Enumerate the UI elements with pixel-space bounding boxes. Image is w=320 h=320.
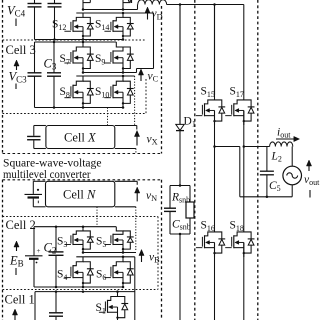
cell 4 S11 source stub (cut) xyxy=(83,0,90,10)
cell 2 battery E_B xyxy=(25,227,43,287)
dotted continuation cell3 to cell X xyxy=(134,76,136,126)
partial cut label top left of inductor xyxy=(131,0,133,3)
snubber capacitor Csnb branch xyxy=(164,186,176,235)
capacitor C3 xyxy=(47,42,61,108)
E_B arrow tail tick xyxy=(15,268,17,275)
leg B wire bottom xyxy=(243,243,245,320)
V_C3 voltage arrow xyxy=(16,65,18,70)
dotted continuation cell N to cell 2 xyxy=(135,207,137,252)
converter dashed box lower part xyxy=(3,180,162,320)
V_C4 arrow tail tick xyxy=(15,19,17,27)
transistor S3 xyxy=(64,227,93,253)
cell 4 left capacitor rail xyxy=(28,0,42,40)
cell N output wire bottom xyxy=(115,206,136,208)
cell 3 mid bus upper xyxy=(82,71,137,74)
snubber resistor Rsnb branch xyxy=(186,186,194,235)
v_D voltage arrow xyxy=(147,12,149,20)
cell N box xyxy=(46,181,115,207)
cell X output wire bottom xyxy=(115,148,136,150)
top inductor L1 (cut) xyxy=(138,0,167,5)
svg-text:Cell X: Cell X xyxy=(64,131,97,145)
battery minus tick xyxy=(37,201,39,204)
leg A wire bottom xyxy=(214,243,216,320)
i_out arrow xyxy=(276,136,300,141)
cell N battery loop xyxy=(25,181,46,207)
cell 4 S13 source stub (cut) xyxy=(123,0,130,10)
v_X voltage arrow xyxy=(136,136,138,146)
leg B wire middle xyxy=(243,111,246,227)
cell 3 bottom rail xyxy=(35,106,125,109)
output H-bridge dashed box right edge xyxy=(257,0,259,320)
v_C voltage arrow xyxy=(140,74,142,81)
cell 1 capacitor rail xyxy=(49,292,63,320)
dotted continuation cell N bottom xyxy=(96,207,98,227)
capacitor C5 branch xyxy=(260,147,274,197)
snubber bottom wire down xyxy=(179,233,182,320)
diode D1 xyxy=(176,124,184,185)
leg A wire middle xyxy=(213,111,216,227)
cell 2 mid bus upper xyxy=(82,251,136,254)
V_C3 arrow tail tick xyxy=(15,84,17,90)
cell 3 left capacitor rail xyxy=(28,42,42,108)
transistor S18 xyxy=(225,227,254,257)
cell 3 dashed box xyxy=(3,40,147,114)
chain wire from cell4 to cell3 output node xyxy=(137,13,154,73)
AC source v_out xyxy=(283,166,302,197)
transistor S17 xyxy=(225,95,254,125)
svg-text:Cell 2: Cell 2 xyxy=(6,218,36,232)
transistor S5 xyxy=(104,227,133,253)
cell 2 bottom rail xyxy=(34,286,124,289)
cell 1 left rail xyxy=(34,292,36,320)
cell 4 mid bus lower / S14 drain line to chain xyxy=(76,12,153,15)
output H-bridge dashed box left edge xyxy=(194,0,196,320)
top rail to H-bridge xyxy=(167,3,244,6)
cell 1 top rail xyxy=(35,290,135,293)
cell 3 mid bus lower xyxy=(76,75,134,78)
battery minus dot xyxy=(36,262,38,264)
cell 4 bottom rail xyxy=(35,38,125,41)
snubber top node xyxy=(179,184,182,187)
battery plus dot xyxy=(37,189,39,191)
dotted continuation rail to cell X xyxy=(107,108,109,126)
cell N output stub wire top xyxy=(115,181,137,185)
transistor S7 xyxy=(64,42,93,73)
leg A output tap wire xyxy=(215,147,240,197)
cell 2 dashed box xyxy=(3,217,159,290)
v_N voltage arrow xyxy=(136,192,138,201)
capacitor C4 xyxy=(48,0,62,40)
snubber network box wires xyxy=(170,186,190,235)
wire inductor left end down to cell 4 bus xyxy=(137,5,139,10)
transistor S8 xyxy=(64,76,93,108)
transistor S6 xyxy=(104,257,133,287)
svg-text:Cell N: Cell N xyxy=(63,188,96,202)
leg B wire top xyxy=(243,5,245,96)
transistor S1 xyxy=(99,292,128,320)
svg-text:+: + xyxy=(37,247,41,255)
capacitor C2 xyxy=(49,227,64,287)
transistor S12 xyxy=(64,13,93,40)
inductor L2 xyxy=(270,142,293,147)
L2 filter wire from leg B xyxy=(244,146,270,148)
cell X input capacitor loop xyxy=(27,126,46,149)
leg A wire top xyxy=(214,5,216,96)
cell 1 voltage arrow (cut) xyxy=(14,314,16,320)
transistor S16 xyxy=(196,227,225,257)
transistor S14 xyxy=(104,13,133,40)
dotted continuation below cell X xyxy=(135,149,137,154)
converter dashed box upper part xyxy=(3,0,162,154)
svg-text:multilevel converter: multilevel converter xyxy=(3,167,91,181)
cell 1 dashed box top edge xyxy=(3,289,159,291)
chain wire cell2 to cell1 xyxy=(134,257,136,320)
cell X output stub wire top xyxy=(115,126,137,130)
cell 2 mid bus lower xyxy=(76,256,135,259)
transistor S15 xyxy=(196,95,225,125)
v_out arrow tail tick xyxy=(309,190,311,198)
transistor S9 xyxy=(104,42,133,73)
v_out voltage arrow xyxy=(308,165,310,171)
transistor S4 xyxy=(64,257,93,287)
cell X box xyxy=(46,126,115,149)
output bottom rail xyxy=(240,196,292,199)
cell 2 top rail xyxy=(34,225,116,228)
v_B voltage arrow xyxy=(141,255,143,263)
svg-text:Cell 1: Cell 1 xyxy=(5,293,35,307)
cell 3 top rail xyxy=(35,41,117,44)
diode D1 branch wire xyxy=(179,5,181,125)
wire L2 to AC source xyxy=(291,147,293,167)
cell 4 mid bus upper xyxy=(82,8,138,11)
transistor S10 xyxy=(104,76,133,108)
svg-text:Cell 3: Cell 3 xyxy=(6,43,36,57)
E_B voltage arrow xyxy=(16,246,18,251)
